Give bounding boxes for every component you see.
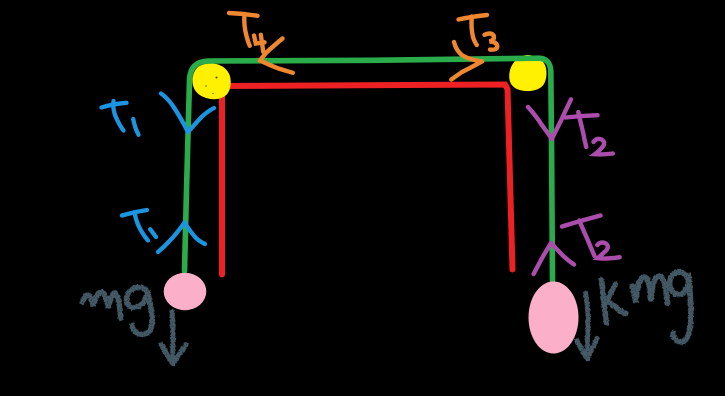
label T1 (upper, blue)	[102, 101, 139, 135]
mass m (left pink ball)	[164, 273, 207, 310]
label mg (pencil gray)	[83, 287, 153, 334]
arrow mg down (pencil gray)	[161, 312, 186, 364]
red rod frame	[222, 85, 513, 275]
arrow T3 (orange, points right into top string)	[451, 42, 482, 80]
pulley P2 (right, yellow)	[509, 55, 546, 91]
label T4 (orange)	[229, 13, 265, 52]
pen specks on pulley P1	[205, 77, 217, 95]
pulley P1 (left, yellow)	[193, 63, 231, 99]
arrow T1 down (blue, on left string)	[161, 94, 214, 133]
label kmg (pencil gray)	[602, 272, 691, 342]
arrow T1 up (blue, on left string)	[158, 223, 205, 253]
label T1 (lower, blue)	[122, 210, 156, 241]
green string frame	[185, 58, 553, 281]
mass km (right pink ball)	[529, 282, 579, 354]
arrow T2 up (purple, on right string)	[534, 243, 574, 274]
arrow kmg down (pencil gray)	[577, 294, 597, 359]
label T2 (lower, purple)	[562, 216, 620, 259]
arrow T2 down (purple, on right string)	[528, 99, 571, 139]
arrow T4 (orange, points left into top string)	[260, 39, 293, 73]
label T3 (orange)	[459, 15, 498, 50]
label T2 (upper, purple)	[566, 112, 613, 154]
